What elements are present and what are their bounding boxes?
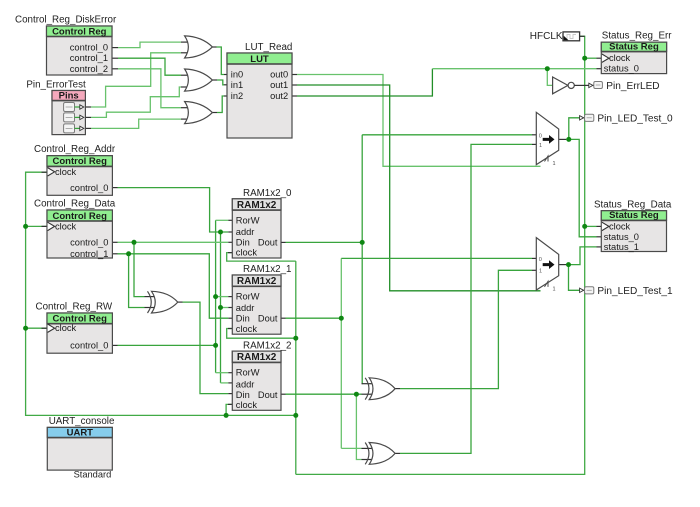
- svg-text:clock: clock: [236, 248, 258, 258]
- wire XOR G6 output to mux U1 in1: [395, 144, 536, 453]
- inverter U3: [553, 77, 575, 94]
- wire Control_Reg_Addr control_0 to RAM addr vertical rail: [112, 188, 232, 232]
- status register Status_Reg_Data: [594, 199, 672, 251]
- UART component UART_console: [47, 416, 115, 470]
- output pin Pin_ErrLED: [574, 81, 659, 92]
- pin Din of RAM1x2_0: [236, 238, 250, 248]
- pin control_1 of Control_Reg_DiskError: [70, 53, 108, 63]
- wire control_1 of Control_Reg_DiskError to OR gate G2 input 0: [112, 58, 190, 75]
- wire XOR G5 output to mux U2 in1: [395, 270, 536, 388]
- node junction LUT out2 net at inverter branch: [545, 66, 550, 71]
- svg-text:clock: clock: [55, 167, 77, 177]
- svg-text:control_0: control_0: [70, 340, 108, 350]
- wire LUT out0 to mux U1 select: [292, 75, 541, 167]
- svg-text:Dout: Dout: [258, 390, 278, 400]
- svg-text:HFCLK: HFCLK: [530, 31, 563, 42]
- wire clock stub to Status_Reg_Err clock: [585, 57, 602, 59]
- svg-text:RAM1x2: RAM1x2: [237, 200, 277, 211]
- svg-text:RorW: RorW: [236, 215, 260, 225]
- mux U2: [536, 238, 558, 293]
- svg-text:in0: in0: [231, 70, 243, 80]
- svg-text:Standard: Standard: [74, 470, 112, 480]
- svg-text:status_0: status_0: [604, 232, 639, 242]
- pin clock of RAM1x2_0: [236, 248, 258, 258]
- pin control_0 of Control_Reg_RW: [70, 340, 108, 350]
- svg-text:UART: UART: [67, 427, 94, 438]
- svg-text:Status_Reg_Data: Status_Reg_Data: [594, 199, 672, 210]
- wire control_0 of Control_Reg_DiskError to OR gate G1 input 0: [112, 42, 190, 48]
- pin clock of Status_Reg_Err: [602, 53, 631, 63]
- wire Control_Reg_Data control_1 to RAM1x2_1 Din and XOR G4 input 1: [112, 254, 232, 318]
- svg-text:addr: addr: [236, 303, 255, 313]
- node junction addr net at RAM1x2_0: [218, 230, 223, 235]
- pin Dout of RAM1x2_0: [258, 238, 278, 248]
- wire RAM1x2_2 clock link: [226, 404, 232, 415]
- svg-text:Control_Reg_DiskError: Control_Reg_DiskError: [15, 15, 117, 26]
- pin icon pin0 of Pin_ErrorTest: [64, 103, 84, 112]
- status register Status_Reg_Err: [601, 31, 672, 74]
- wire OR gate G1 output to LUT in0: [212, 47, 227, 75]
- node junction mux U2 output net: [566, 262, 571, 267]
- svg-text:Control Reg: Control Reg: [53, 156, 108, 167]
- node junction Din0 net branch to XOR G4: [132, 240, 137, 245]
- svg-text:addr: addr: [236, 379, 255, 389]
- pin addr of RAM1x2_0: [236, 227, 255, 237]
- svg-text:Pin_LED_Test_0: Pin_LED_Test_0: [597, 113, 673, 124]
- wire Pin_ErrorTest pin0 to OR gate G1 input 1: [85, 53, 189, 107]
- svg-text:addr: addr: [236, 227, 255, 237]
- pin clock of Control_Reg_RW: [48, 323, 77, 333]
- pin in0 of LUT_Read: [231, 70, 243, 80]
- node junction clock net at RAM1x2_1 clock link: [293, 336, 298, 341]
- wire clock stub to Status_Reg_Data clock: [585, 225, 602, 227]
- pin icon pin1 of Pin_ErrorTest: [64, 113, 84, 122]
- pin addr of RAM1x2_1: [236, 303, 255, 313]
- pin status_0 of Status_Reg_Err: [604, 64, 639, 74]
- RAM block RAM1x2_0: [232, 188, 292, 258]
- control register Control_Reg_Addr: [34, 144, 116, 195]
- svg-text:control_1: control_1: [70, 53, 108, 63]
- svg-text:out1: out1: [270, 80, 288, 90]
- svg-text:in2: in2: [231, 91, 243, 101]
- wire RAM1x2_1 Dout to mux U2 in0 and XOR G6 input 0: [281, 258, 536, 448]
- svg-text:status_0: status_0: [604, 64, 639, 74]
- RAM block RAM1x2_2: [232, 340, 291, 410]
- wire addr rail down to RAM1x2_1 and RAM1x2_2 addr: [221, 232, 233, 383]
- svg-text:in1: in1: [231, 80, 243, 90]
- xor-gate G4: [148, 291, 178, 313]
- wire mux U2 output to Status_Reg_Data status_1 and Pin_LED_Test_1: [559, 247, 602, 290]
- wire RAM1x2_0 Dout to mux U1 in0 and XOR G5 input 0: [281, 135, 536, 384]
- wire Control_Reg_Data control_0 to RAM1x2_0 Din and XOR G4 input 0: [112, 242, 232, 296]
- wire Pin_ErrorTest pin1 to OR gate G2 input 1: [85, 87, 189, 117]
- svg-text:clock: clock: [236, 324, 258, 334]
- control register Control_Reg_DiskError: [15, 15, 117, 76]
- svg-text:Din: Din: [236, 238, 250, 248]
- xor-gate G5: [365, 378, 395, 400]
- lookup table LUT_Read: [227, 42, 292, 138]
- node junction Dout0 net: [360, 240, 365, 245]
- node junction Dout1 net: [339, 316, 344, 321]
- svg-text:0: 0: [539, 133, 542, 139]
- pin Dout of RAM1x2_1: [258, 314, 278, 324]
- pin status_1 of Status_Reg_Data: [604, 242, 639, 252]
- pin control_0 of Control_Reg_Addr: [70, 183, 108, 193]
- pin status_0 of Status_Reg_Data: [604, 232, 639, 242]
- svg-text:Control Reg: Control Reg: [53, 211, 108, 222]
- wire clock mid vertical rail to RAM clocks: [295, 261, 297, 474]
- svg-text:RAM1x2_0: RAM1x2_0: [243, 188, 292, 199]
- node junction clock net at Control_Reg_Data clock: [23, 224, 28, 229]
- node junction clock net at Control_Reg_RW clock: [23, 326, 28, 331]
- svg-text:out0: out0: [270, 70, 288, 80]
- svg-text:clock: clock: [236, 400, 258, 410]
- wire OR gate G2 output to LUT in1: [212, 80, 227, 85]
- node junction clock net at RAM1x2_2 clock link: [224, 413, 229, 418]
- node junction Dout2 net branch to XOR G6: [354, 392, 359, 397]
- svg-text:1: 1: [539, 268, 542, 274]
- pin control_0 of Control_Reg_DiskError: [70, 43, 108, 53]
- wire control_2 of Control_Reg_DiskError to OR gate G3 input 0: [112, 69, 190, 108]
- wire RAM1x2_2 Dout to XOR G5 input 1 and XOR G6 input 1: [281, 394, 374, 459]
- svg-text:clock: clock: [55, 221, 77, 231]
- svg-text:status_1: status_1: [604, 242, 639, 252]
- pin Dout of RAM1x2_2: [258, 390, 278, 400]
- pin icon pin2 of Pin_ErrorTest: [64, 124, 84, 133]
- or-gate G3: [185, 102, 213, 124]
- node junction clock net at Status_Reg_Data clock: [582, 224, 587, 229]
- svg-text:control_1: control_1: [70, 249, 108, 259]
- svg-text:control_0: control_0: [70, 237, 108, 247]
- wire OR gate G3 output to LUT in2: [212, 96, 227, 113]
- svg-text:Dout: Dout: [258, 314, 278, 324]
- wire RAM1x2_0 clock link: [227, 253, 296, 262]
- svg-text:Din: Din: [236, 390, 250, 400]
- pin Din of RAM1x2_1: [236, 314, 250, 324]
- wire net HFCLK clock distribution (left rail to Control Reg clocks): [26, 172, 296, 415]
- pin clock of Control_Reg_Data: [48, 221, 77, 231]
- pin clock of RAM1x2_1: [236, 324, 258, 334]
- wire XOR G4 output to RAM1x2_2 Din: [178, 302, 233, 394]
- node junction mux U1 output net: [566, 137, 571, 142]
- svg-text:RorW: RorW: [236, 292, 260, 302]
- pin control_2 of Control_Reg_DiskError: [70, 64, 108, 74]
- node junction clock net at Status_Reg_Err clock: [582, 56, 587, 61]
- node junction RorW net at RAM1x2_1: [213, 294, 218, 299]
- svg-text:1: 1: [553, 161, 556, 167]
- label Standard below UART_console: [74, 470, 112, 480]
- svg-text:clock: clock: [609, 53, 631, 63]
- node junction clock net at bottom rail corner: [293, 413, 298, 418]
- svg-text:LUT_Read: LUT_Read: [245, 42, 292, 53]
- wire clock stub to Control_Reg_Data clock: [26, 225, 47, 227]
- svg-text:Status Reg: Status Reg: [609, 210, 659, 221]
- svg-text:Control_Reg_Addr: Control_Reg_Addr: [34, 144, 116, 155]
- svg-text:RAM1x2: RAM1x2: [237, 352, 277, 363]
- svg-text:RorW: RorW: [236, 368, 260, 378]
- svg-text:Status_Reg_Err: Status_Reg_Err: [602, 31, 672, 42]
- wire clock stub to Control_Reg_RW clock: [26, 327, 47, 329]
- or-gate G1: [185, 36, 213, 58]
- svg-text:Din: Din: [236, 314, 250, 324]
- svg-text:out2: out2: [270, 91, 288, 101]
- node junction addr net at RAM1x2_1: [218, 305, 223, 310]
- svg-text:Dout: Dout: [258, 238, 278, 248]
- pin out0 of LUT_Read: [270, 70, 288, 80]
- clock source HFCLK: [530, 31, 580, 42]
- svg-text:Control_Reg_RW: Control_Reg_RW: [36, 302, 113, 313]
- svg-text:Pin_ErrorTest: Pin_ErrorTest: [26, 80, 86, 91]
- svg-text:Control_Reg_Data: Control_Reg_Data: [34, 199, 116, 210]
- svg-text:1: 1: [539, 143, 542, 149]
- pin clock of Control_Reg_Addr: [48, 167, 77, 177]
- mux U1: [536, 112, 558, 167]
- wire RAM1x2_1 clock link: [227, 329, 296, 339]
- svg-text:Status Reg: Status Reg: [609, 41, 659, 52]
- svg-text:control_2: control_2: [70, 64, 108, 74]
- wire Control_Reg_RW control_0 to RAM RorW vertical rail: [112, 220, 232, 372]
- svg-text:control_0: control_0: [70, 183, 108, 193]
- svg-text:clock: clock: [609, 221, 631, 231]
- or-gate G2: [185, 69, 213, 91]
- pin RorW of RAM1x2_2: [236, 368, 260, 378]
- pin out2 of LUT_Read: [270, 91, 288, 101]
- wire Pin_ErrorTest pin2 to OR gate G3 input 1: [85, 119, 189, 128]
- pin out1 of LUT_Read: [270, 80, 288, 90]
- pin control_0 of Control_Reg_Data: [70, 237, 108, 247]
- svg-text:RAM1x2_2: RAM1x2_2: [243, 340, 291, 351]
- svg-text:UART_console: UART_console: [49, 416, 115, 427]
- svg-text:RAM1x2: RAM1x2: [237, 276, 277, 287]
- pin in2 of LUT_Read: [231, 91, 243, 101]
- output pin Pin_LED_Test_0: [580, 113, 673, 124]
- node junction RorW net at Control_Reg_RW feed: [213, 343, 218, 348]
- pin clock of Status_Reg_Data: [602, 221, 631, 231]
- svg-text:clock: clock: [55, 323, 77, 333]
- svg-text:Pins: Pins: [59, 90, 79, 101]
- svg-text:Pin_LED_Test_1: Pin_LED_Test_1: [597, 286, 673, 297]
- svg-text:Control Reg: Control Reg: [52, 26, 107, 37]
- svg-text:control_0: control_0: [70, 43, 108, 53]
- pin in1 of LUT_Read: [231, 80, 243, 90]
- svg-text:RAM1x2_1: RAM1x2_1: [243, 264, 291, 275]
- svg-text:Pin_ErrLED: Pin_ErrLED: [606, 81, 659, 92]
- pin RorW of RAM1x2_0: [236, 215, 260, 225]
- node junction Din1 net branch to XOR G4: [126, 251, 131, 256]
- pin RorW of RAM1x2_1: [236, 292, 260, 302]
- svg-text:0: 0: [539, 257, 542, 263]
- pin control_1 of Control_Reg_Data: [70, 249, 108, 259]
- wire mux U1 output to Status_Reg_Data status_0 and Pin_LED_Test_0: [559, 118, 602, 237]
- svg-text:LUT: LUT: [250, 54, 269, 65]
- RAM block RAM1x2_1: [232, 264, 291, 334]
- xor-gate G6: [365, 443, 395, 465]
- pin clock of RAM1x2_2: [236, 400, 258, 410]
- wire LUT out1 to mux U2 select: [292, 85, 541, 291]
- pin addr of RAM1x2_2: [236, 379, 255, 389]
- output pin Pin_LED_Test_1: [580, 286, 673, 297]
- control register Control_Reg_Data: [34, 199, 116, 258]
- wire clock bottom rail and right vertical to status registers and HFCLK: [296, 36, 585, 474]
- pin Din of RAM1x2_2: [236, 390, 250, 400]
- wire LUT out2 to Status_Reg_Err status_0 and inverter input: [292, 69, 601, 96]
- pins component Pin_ErrorTest: [26, 80, 86, 135]
- control register Control_Reg_RW: [36, 302, 113, 354]
- svg-text:1: 1: [553, 286, 556, 292]
